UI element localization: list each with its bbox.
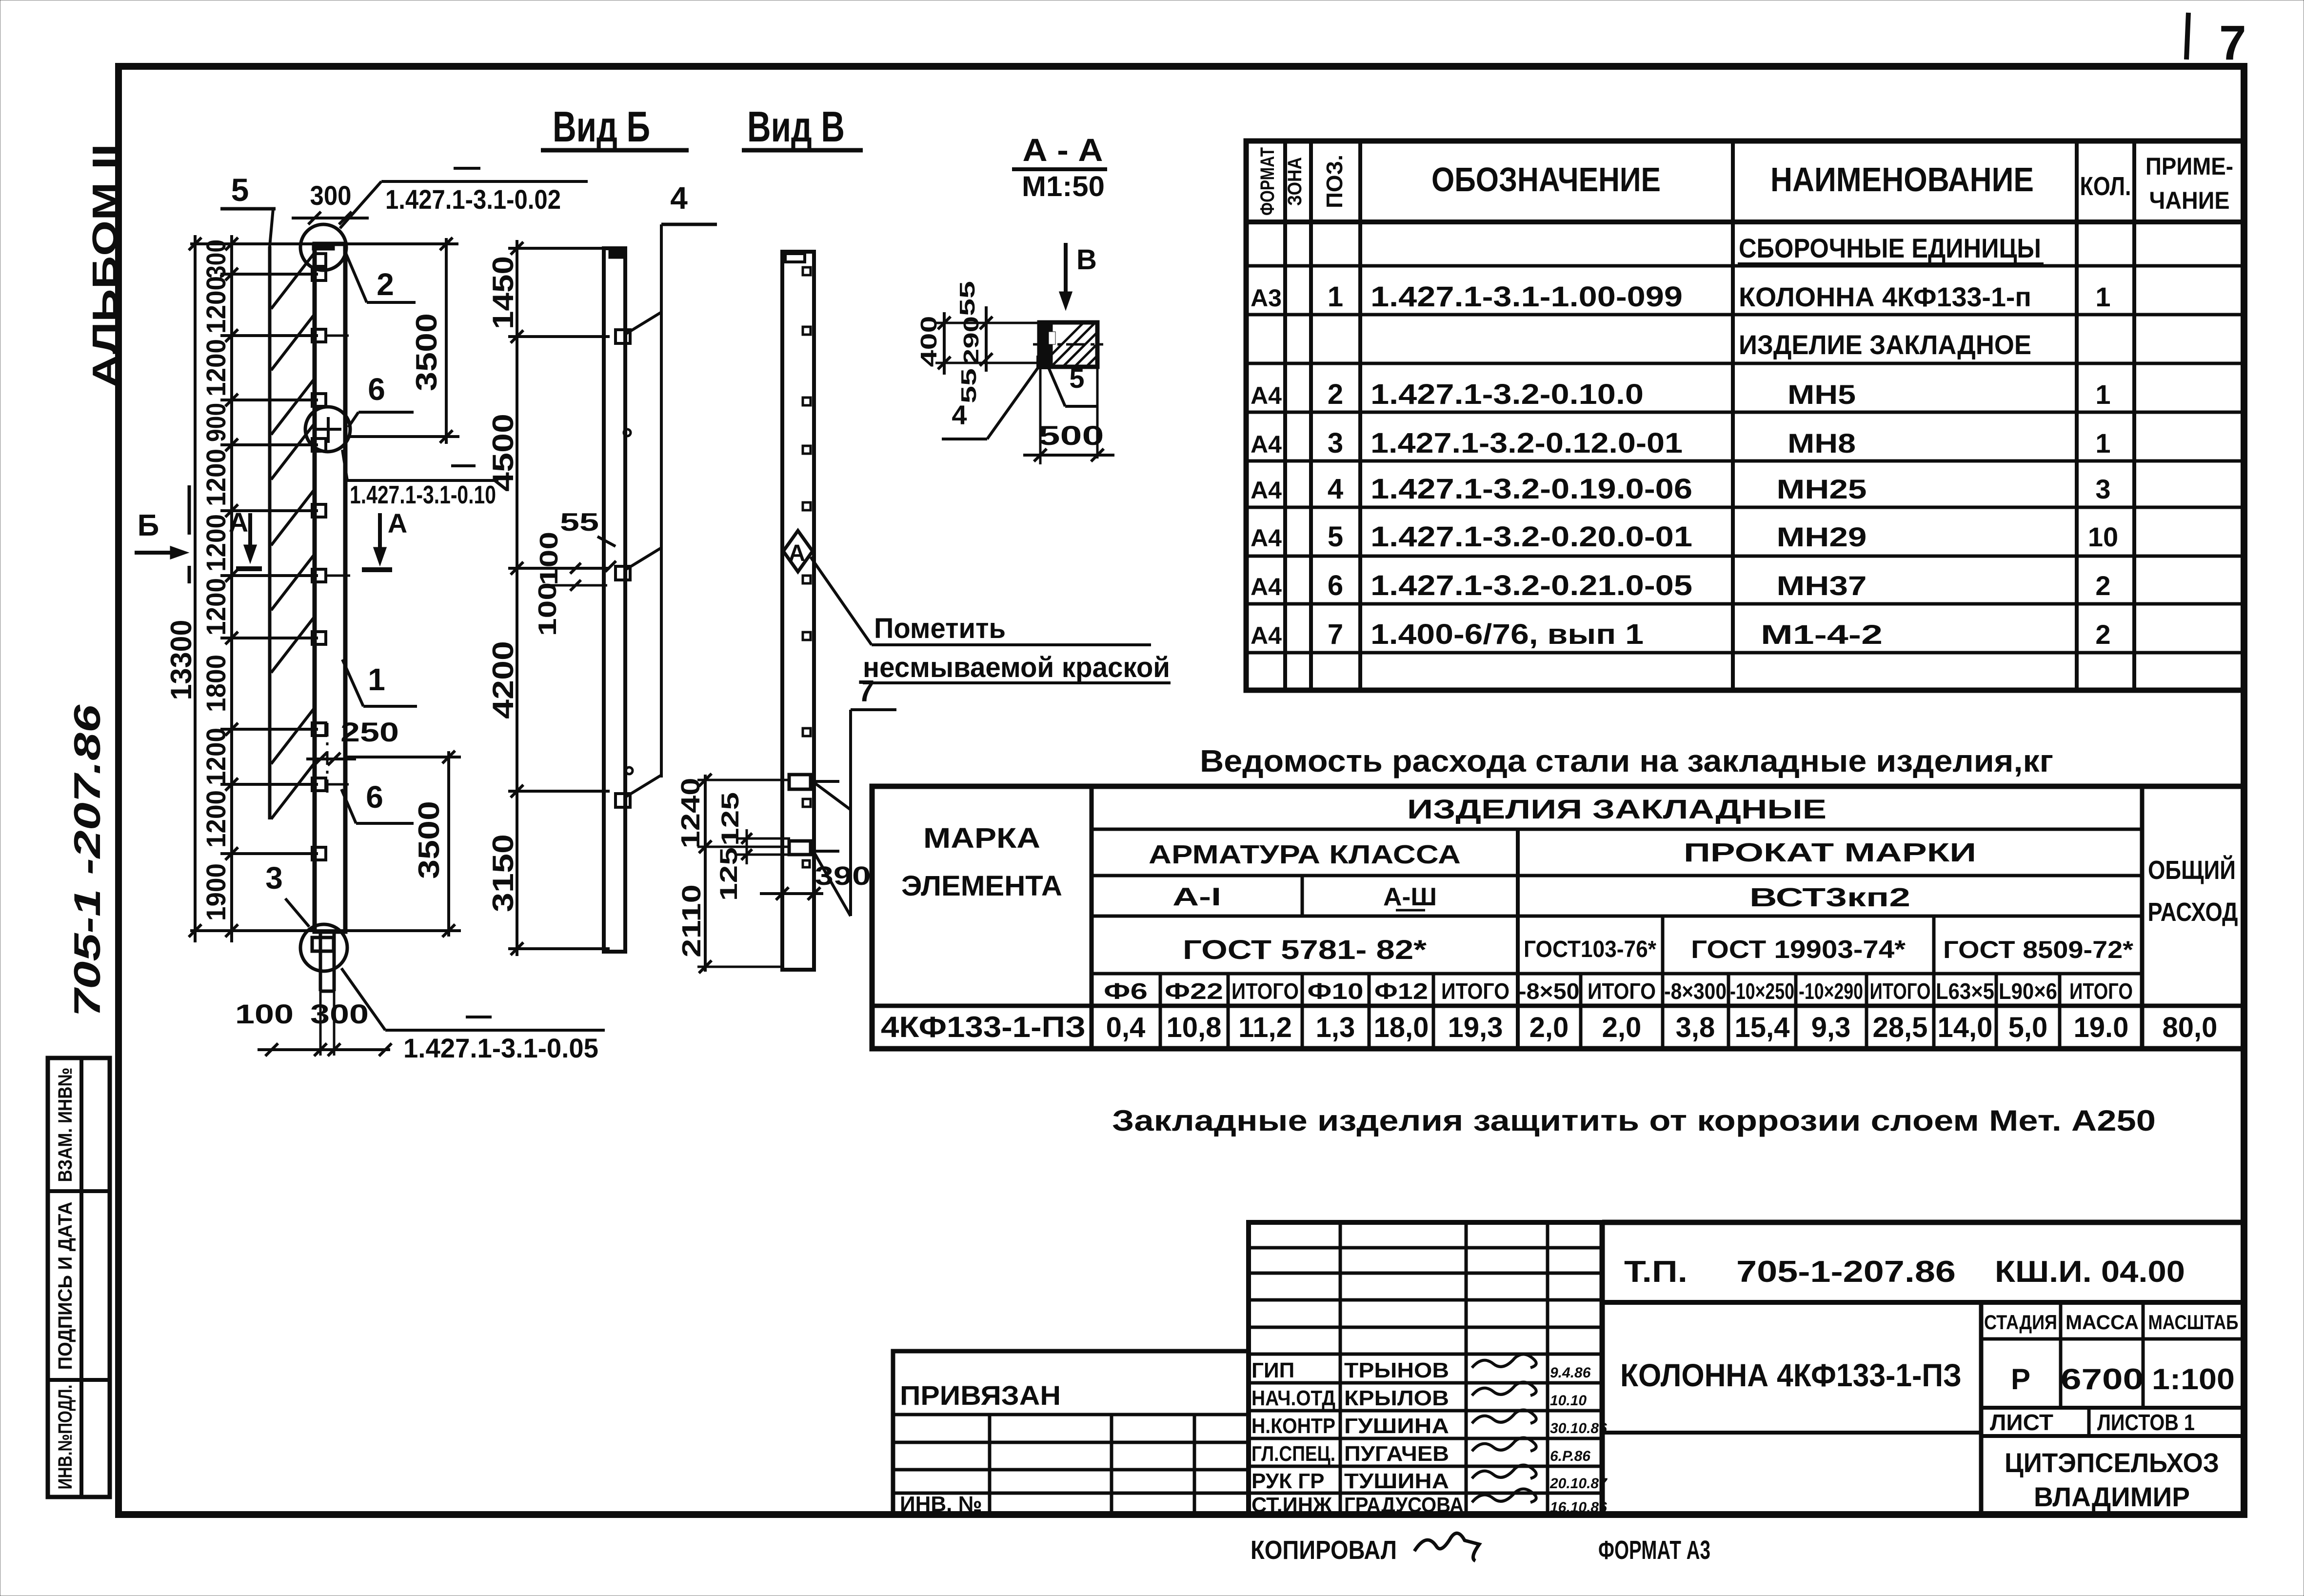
svg-text:1200: 1200 <box>200 449 231 506</box>
svg-text:МН37: МН37 <box>1777 570 1867 601</box>
svg-text:1.427.1-3.2-0.10.0: 1.427.1-3.2-0.10.0 <box>1370 379 1644 410</box>
svg-text:2110: 2110 <box>677 884 706 958</box>
svg-text:30.10.86: 30.10.86 <box>1550 1420 1607 1436</box>
svg-text:2: 2 <box>1328 379 1343 410</box>
svg-text:100: 100 <box>534 582 562 636</box>
svg-text:3500: 3500 <box>413 801 445 879</box>
svg-text:6.Р.86: 6.Р.86 <box>1550 1448 1590 1464</box>
section left flange lines <box>935 322 1039 324</box>
svg-text:ФОРМАТ: ФОРМАТ <box>1257 147 1278 216</box>
svg-text:ГИП: ГИП <box>1251 1358 1294 1382</box>
specification table <box>1246 141 2244 690</box>
svg-text:Вид В: Вид В <box>747 102 845 151</box>
svg-text:80,0: 80,0 <box>2163 1012 2218 1043</box>
view B embeds <box>616 330 630 343</box>
svg-text:ВЛАДИМИР: ВЛАДИМИР <box>2034 1481 2190 1512</box>
view V column <box>782 252 814 970</box>
section embed <box>1038 357 1049 368</box>
svg-text:МН8: МН8 <box>1788 428 1856 459</box>
svg-text:55: 55 <box>957 368 981 403</box>
detail circle middle (node 1.427.1-3.1-0.10) <box>305 407 350 452</box>
svg-text:ЦИТЭПСЕЛЬХОЗ: ЦИТЭПСЕЛЬХОЗ <box>2005 1447 2219 1478</box>
svg-text:КШ.И. 04.00: КШ.И. 04.00 <box>1995 1255 2185 1289</box>
svg-text:3: 3 <box>1328 427 1343 459</box>
svg-text:3,8: 3,8 <box>1676 1012 1715 1043</box>
dim 3500 lower <box>447 751 450 937</box>
inner leader line (plate 5) <box>268 246 272 819</box>
view V brackets <box>789 775 811 789</box>
svg-text:10: 10 <box>2088 521 2118 552</box>
svg-text:Р: Р <box>2011 1363 2030 1396</box>
svg-text:1.427.1-3.1-0.10: 1.427.1-3.1-0.10 <box>350 481 496 509</box>
svg-text:А4: А4 <box>1251 622 1282 649</box>
svg-text:1200: 1200 <box>200 276 231 334</box>
svg-text:6: 6 <box>1328 570 1343 601</box>
svg-text:20.10.87: 20.10.87 <box>1549 1476 1608 1492</box>
dim 500 <box>1039 367 1042 464</box>
svg-text:А: А <box>229 507 248 538</box>
svg-text:-8×300: -8×300 <box>1664 978 1727 1004</box>
column bottom tab <box>319 932 322 991</box>
left margin stamp boxes <box>48 1058 110 1497</box>
svg-text:КОПИРОВАЛ: КОПИРОВАЛ <box>1251 1536 1397 1565</box>
svg-text:Закладные изделия защитить: Закладные изделия защитить от коррозии с… <box>1112 1104 2156 1137</box>
svg-text:100: 100 <box>535 532 563 585</box>
leader pometit <box>811 557 872 645</box>
svg-text:2: 2 <box>2095 570 2110 601</box>
svg-text:6700: 6700 <box>2061 1363 2144 1396</box>
svg-text:5: 5 <box>1328 521 1343 553</box>
view B column <box>604 248 625 952</box>
column body outline <box>315 244 345 932</box>
svg-text:5: 5 <box>1069 363 1084 394</box>
title block right section <box>1600 1222 1605 1515</box>
svg-text:11,2: 11,2 <box>1238 1012 1292 1043</box>
section hatch <box>1039 322 1084 367</box>
svg-text:2,0: 2,0 <box>1602 1012 1642 1043</box>
svg-text:ГОСТ 5781- 82*: ГОСТ 5781- 82* <box>1183 934 1427 965</box>
svg-text:7: 7 <box>858 675 874 708</box>
svg-text:ИТОГО: ИТОГО <box>2069 978 2133 1004</box>
svg-text:ЛИСТ: ЛИСТ <box>1990 1410 2053 1435</box>
svg-text:В: В <box>1076 244 1097 276</box>
svg-text:1200: 1200 <box>200 339 231 397</box>
svg-text:1450: 1450 <box>487 256 519 329</box>
marker diamond A <box>783 531 813 572</box>
chain dimension line <box>230 235 233 942</box>
svg-text:250: 250 <box>340 717 399 747</box>
svg-text:4200: 4200 <box>487 641 519 719</box>
svg-text:2: 2 <box>2095 619 2110 650</box>
svg-text:3500: 3500 <box>410 313 443 391</box>
svg-text:1200: 1200 <box>200 790 231 848</box>
svg-text:ПРОКАТ МАРКИ: ПРОКАТ МАРКИ <box>1684 838 1976 867</box>
leader 1.427.1-3.1-0.02 <box>381 180 588 183</box>
svg-text:А - А: А - А <box>1023 132 1103 168</box>
svg-text:4: 4 <box>1328 473 1343 505</box>
svg-text:4: 4 <box>952 399 967 430</box>
svg-text:14,0: 14,0 <box>1938 1012 1993 1043</box>
svg-text:2: 2 <box>377 267 394 302</box>
leader 1.427.1-3.1-0.05 <box>341 968 385 1030</box>
svg-text:СТАДИЯ: СТАДИЯ <box>1984 1311 2057 1334</box>
svg-text:КОЛ.: КОЛ. <box>2080 172 2131 201</box>
svg-text:НАЧ.ОТД: НАЧ.ОТД <box>1251 1386 1335 1410</box>
svg-text:ЛИСТОВ 1: ЛИСТОВ 1 <box>2097 1410 2195 1435</box>
svg-text:ПРИМЕ-: ПРИМЕ- <box>2145 153 2233 180</box>
svg-text:L63×5: L63×5 <box>1936 978 1994 1004</box>
svg-text:300: 300 <box>310 180 352 211</box>
svg-text:7: 7 <box>1328 618 1343 650</box>
svg-text:ТУШИНА: ТУШИНА <box>1344 1469 1449 1493</box>
svg-text:ИТОГО: ИТОГО <box>1441 978 1510 1004</box>
svg-text:1240: 1240 <box>676 778 705 849</box>
svg-text:Ведомость расхода стали на зак: Ведомость расхода стали на закладные изд… <box>1200 743 2053 778</box>
svg-text:1.427.1-3.2-0.20.0-01: 1.427.1-3.2-0.20.0-01 <box>1370 521 1692 553</box>
extension lines <box>190 242 458 245</box>
svg-text:19,3: 19,3 <box>1448 1012 1503 1043</box>
svg-text:ФОРМАТ А3: ФОРМАТ А3 <box>1598 1536 1710 1565</box>
svg-text:ИТОГО: ИТОГО <box>1231 978 1299 1004</box>
svg-text:НАИМЕНОВАНИЕ: НАИМЕНОВАНИЕ <box>1770 160 2034 199</box>
svg-text:18,0: 18,0 <box>1374 1012 1429 1043</box>
svg-text:1: 1 <box>2095 379 2110 410</box>
svg-text:КОЛОННА 4КФ133-1-ПЗ: КОЛОННА 4КФ133-1-ПЗ <box>1620 1357 1962 1393</box>
svg-text:МАСШТАБ: МАСШТАБ <box>2148 1311 2239 1334</box>
svg-text:ГРАДУСОВА: ГРАДУСОВА <box>1344 1493 1464 1517</box>
svg-text:1.427.1-3.1-0.05: 1.427.1-3.1-0.05 <box>403 1033 598 1063</box>
svg-text:МН29: МН29 <box>1777 521 1867 552</box>
svg-text:5: 5 <box>231 172 249 208</box>
svg-text:А4: А4 <box>1251 431 1282 458</box>
svg-text:1.427.1-3.1-0.02: 1.427.1-3.1-0.02 <box>385 184 561 215</box>
page number tick <box>2186 13 2188 60</box>
svg-text:А-Ш: А-Ш <box>1383 883 1437 911</box>
svg-text:ПОДПИСЬ И ДАТА: ПОДПИСЬ И ДАТА <box>55 1202 76 1370</box>
svg-text:1:100: 1:100 <box>2152 1363 2235 1396</box>
svg-text:АРМАТУРА КЛАССА: АРМАТУРА КЛАССА <box>1149 840 1461 869</box>
svg-text:-8×50: -8×50 <box>1519 978 1580 1004</box>
section block <box>1039 322 1097 367</box>
svg-text:СБОРОЧНЫЕ ЕДИНИЦЫ: СБОРОЧНЫЕ ЕДИНИЦЫ <box>1739 233 2041 263</box>
svg-text:РУК ГР: РУК ГР <box>1251 1469 1325 1493</box>
svg-text:МН25: МН25 <box>1777 474 1867 504</box>
svg-text:1200: 1200 <box>200 728 231 785</box>
svg-text:3150: 3150 <box>487 834 519 912</box>
svg-text:4КФ133-1-ПЗ: 4КФ133-1-ПЗ <box>881 1011 1086 1043</box>
svg-text:1200: 1200 <box>200 514 231 572</box>
svg-text:Вид Б: Вид Б <box>553 102 650 151</box>
svg-text:Ф22: Ф22 <box>1165 978 1223 1004</box>
svg-text:1.427.1-3.2-0.12.0-01: 1.427.1-3.2-0.12.0-01 <box>1370 427 1683 459</box>
svg-text:ГОСТ 19903-74*: ГОСТ 19903-74* <box>1691 936 1906 964</box>
dim 3500 upper <box>445 238 448 444</box>
svg-text:ИТОГО: ИТОГО <box>1870 978 1931 1004</box>
svg-text:А4: А4 <box>1251 573 1282 600</box>
svg-text:1800: 1800 <box>200 655 231 712</box>
svg-text:1: 1 <box>368 662 385 697</box>
svg-text:А: А <box>388 508 407 539</box>
view V dims <box>704 775 707 972</box>
svg-text:ИТОГО: ИТОГО <box>1588 978 1656 1004</box>
view V embeds <box>803 267 811 275</box>
svg-text:ГОСТ 8509-72*: ГОСТ 8509-72* <box>1943 936 2134 963</box>
svg-text:МН5: МН5 <box>1788 379 1856 410</box>
svg-text:1: 1 <box>1328 281 1343 313</box>
svg-text:Ф12: Ф12 <box>1374 978 1428 1004</box>
svg-text:М1-4-2: М1-4-2 <box>1761 619 1883 650</box>
svg-text:705-1-207.86: 705-1-207.86 <box>1736 1255 1956 1289</box>
svg-text:19.0: 19.0 <box>2074 1012 2129 1043</box>
svg-text:1.427.1-3.1-1.00-099: 1.427.1-3.1-1.00-099 <box>1370 281 1683 313</box>
svg-text:Ф10: Ф10 <box>1308 978 1364 1004</box>
svg-text:МАССА: МАССА <box>2066 1311 2139 1334</box>
svg-text:100: 100 <box>235 998 294 1029</box>
svg-text:390: 390 <box>815 861 871 891</box>
svg-text:ВСТ3кп2: ВСТ3кп2 <box>1749 883 1910 912</box>
svg-text:Пометить: Пометить <box>874 613 1006 644</box>
svg-text:5,0: 5,0 <box>2008 1012 2048 1043</box>
svg-text:ЭЛЕМЕНТА: ЭЛЕМЕНТА <box>901 870 1062 902</box>
svg-text:АЛЬБОМ II: АЛЬБОМ II <box>86 144 125 388</box>
svg-text:400: 400 <box>916 316 941 367</box>
svg-text:Т.П.: Т.П. <box>1624 1255 1688 1289</box>
svg-text:-10×290: -10×290 <box>1799 978 1863 1004</box>
detail circle top (node 1.427.1-3.1-0.02) <box>300 224 346 270</box>
svg-text:ПУГАЧЕВ: ПУГАЧЕВ <box>1344 1442 1449 1466</box>
leader 1.427.1-3.1-0.10 <box>347 479 498 482</box>
svg-text:1.400-6/76, вып 1: 1.400-6/76, вып 1 <box>1370 618 1644 650</box>
svg-text:1: 1 <box>2095 281 2110 312</box>
svg-text:ПРИВЯЗАН: ПРИВЯЗАН <box>900 1380 1061 1411</box>
svg-text:1200: 1200 <box>200 578 231 636</box>
svg-text:ИНВ.№ПОДЛ.: ИНВ.№ПОДЛ. <box>55 1385 76 1490</box>
steel consumption table <box>872 786 2244 1049</box>
view B dim chain <box>516 240 518 956</box>
svg-text:несмываемой краской: несмываемой краской <box>863 652 1170 683</box>
embed plates on column <box>312 268 326 280</box>
svg-text:6: 6 <box>368 372 385 407</box>
svg-text:1.427.1-3.2-0.19.0-06: 1.427.1-3.2-0.19.0-06 <box>1370 473 1692 505</box>
svg-text:290: 290 <box>959 316 983 365</box>
svg-text:13300: 13300 <box>165 620 198 700</box>
svg-text:А: А <box>789 540 806 566</box>
svg-text:10.10: 10.10 <box>1550 1393 1587 1409</box>
section centerline <box>1033 343 1103 346</box>
svg-text:4500: 4500 <box>487 414 519 492</box>
arrow V <box>1064 243 1068 301</box>
svg-text:ТРЫНОВ: ТРЫНОВ <box>1344 1358 1449 1382</box>
svg-text:МАРКА: МАРКА <box>923 822 1040 854</box>
svg-text:28,5: 28,5 <box>1873 1012 1928 1043</box>
svg-text:16.10.86: 16.10.86 <box>1550 1499 1607 1516</box>
svg-text:А4: А4 <box>1251 382 1282 409</box>
svg-text:3: 3 <box>2095 474 2110 504</box>
svg-text:300: 300 <box>200 239 231 279</box>
svg-text:1.427.1-3.2-0.21.0-05: 1.427.1-3.2-0.21.0-05 <box>1370 570 1692 601</box>
svg-text:Б: Б <box>138 509 159 542</box>
dim 290 <box>985 306 988 372</box>
svg-text:А3: А3 <box>1251 284 1282 312</box>
svg-text:РАСХОД: РАСХОД <box>2148 898 2238 927</box>
svg-text:Н.КОНТР: Н.КОНТР <box>1251 1414 1335 1438</box>
svg-text:2,0: 2,0 <box>1529 1012 1569 1043</box>
privyazan box <box>893 1351 1249 1515</box>
svg-text:55: 55 <box>955 281 979 316</box>
svg-text:ЧАНИЕ: ЧАНИЕ <box>2149 187 2230 214</box>
svg-text:7: 7 <box>2219 16 2246 70</box>
svg-text:1,3: 1,3 <box>1316 1012 1355 1043</box>
svg-text:10,8: 10,8 <box>1167 1012 1222 1043</box>
svg-text:ПОЗ.: ПОЗ. <box>1322 155 1347 208</box>
svg-text:Ф6: Ф6 <box>1104 978 1148 1004</box>
svg-text:М1:50: М1:50 <box>1022 171 1105 202</box>
svg-text:9.4.86: 9.4.86 <box>1550 1365 1591 1381</box>
svg-text:СТ.ИНЖ: СТ.ИНЖ <box>1251 1493 1332 1517</box>
svg-text:900: 900 <box>200 403 231 442</box>
svg-text:1900: 1900 <box>200 863 231 921</box>
svg-text:1: 1 <box>2095 428 2110 459</box>
svg-text:А-I: А-I <box>1172 883 1221 911</box>
detail circle bottom (node 1.427.1-3.1-0.05) <box>300 924 347 971</box>
svg-text:ИЗДЕЛИЯ ЗАКЛАДНЫЕ: ИЗДЕЛИЯ ЗАКЛАДНЫЕ <box>1407 794 1827 824</box>
svg-text:А4: А4 <box>1251 524 1282 552</box>
svg-text:ИЗДЕЛИЕ ЗАКЛАДНОЕ: ИЗДЕЛИЕ ЗАКЛАДНОЕ <box>1739 329 2031 360</box>
svg-text:9,3: 9,3 <box>1811 1012 1851 1043</box>
svg-text:0,4: 0,4 <box>1106 1012 1146 1043</box>
svg-text:ГЛ.СПЕЦ.: ГЛ.СПЕЦ. <box>1251 1442 1335 1466</box>
svg-text:55: 55 <box>560 508 599 537</box>
svg-text:КРЫЛОВ: КРЫЛОВ <box>1344 1386 1449 1410</box>
svg-text:L90×6: L90×6 <box>1999 978 2057 1004</box>
title block: signatures table <box>1249 1222 1602 1515</box>
svg-text:ГОСТ103-76*: ГОСТ103-76* <box>1524 937 1656 962</box>
svg-text:ИНВ. №: ИНВ. № <box>900 1492 982 1516</box>
svg-text:ОБОЗНАЧЕНИЕ: ОБОЗНАЧЕНИЕ <box>1431 160 1661 199</box>
svg-text:ЗОНА: ЗОНА <box>1284 157 1306 206</box>
svg-text:300: 300 <box>310 998 369 1029</box>
hatch diagonals <box>271 253 315 309</box>
svg-text:-10×250: -10×250 <box>1730 978 1794 1004</box>
svg-text:705-1 -207.86: 705-1 -207.86 <box>67 704 108 1017</box>
svg-text:500: 500 <box>1038 420 1104 451</box>
svg-text:А4: А4 <box>1251 477 1282 504</box>
svg-text:4: 4 <box>670 180 688 216</box>
svg-text:3: 3 <box>265 860 283 896</box>
svg-text:ВЗАМ. ИНВ№: ВЗАМ. ИНВ№ <box>55 1068 76 1182</box>
svg-text:ОБЩИЙ: ОБЩИЙ <box>2148 855 2236 885</box>
svg-text:ГУШИНА: ГУШИНА <box>1344 1414 1449 1438</box>
overall dimension line 13300 <box>194 235 197 942</box>
svg-text:КОЛОННА 4КФ133-1-п: КОЛОННА 4КФ133-1-п <box>1739 281 2031 312</box>
svg-text:15,4: 15,4 <box>1735 1012 1790 1043</box>
svg-text:6: 6 <box>366 779 383 815</box>
dim 400 <box>943 312 946 375</box>
